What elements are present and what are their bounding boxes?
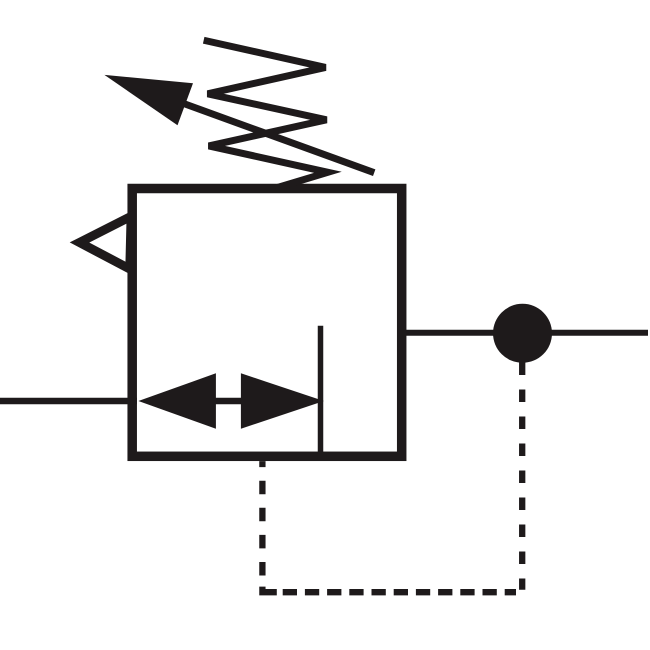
flow path double arrow shaft bbox=[210, 398, 250, 405]
adjustment arrowhead bbox=[104, 75, 193, 125]
flow path right arrowhead bbox=[241, 373, 324, 428]
adjustable spring (zigzag) bbox=[207, 41, 328, 187]
pilot line: bottom-left corner dash bbox=[262, 587, 276, 593]
adjustment arrow shaft bbox=[185, 104, 374, 173]
inlet port line (left) bbox=[0, 398, 137, 405]
pilot line: dashed bottom horizontal bbox=[283, 589, 516, 595]
flow path left arrowhead bbox=[138, 373, 216, 428]
relief vent triangle bbox=[80, 216, 132, 269]
outlet port line (right) bbox=[402, 330, 648, 336]
valve body box bbox=[132, 189, 402, 457]
pilot line: dashed vertical from node bbox=[519, 363, 525, 590]
outlet junction node (filled circle) bbox=[493, 304, 552, 363]
pilot line: dashed vertical to valve bottom bbox=[259, 461, 265, 575]
valve seat vertical line bbox=[318, 326, 324, 456]
